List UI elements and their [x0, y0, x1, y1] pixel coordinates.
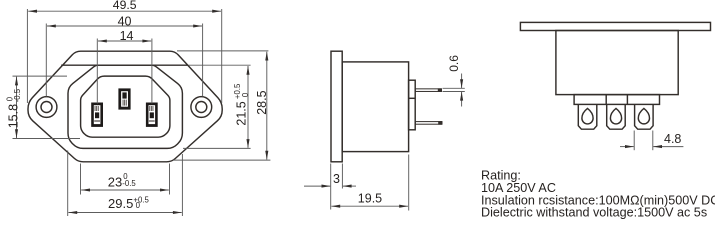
- mounting hole left (outer): [36, 97, 57, 118]
- lower pin (side): [415, 121, 442, 125]
- svg-text:21.5: 21.5: [234, 101, 248, 125]
- terminal block divider: [409, 97, 416, 99]
- dim 15.8 0/-0.5 (left, rotated): [5, 76, 80, 138]
- base band divider 1: [605, 95, 607, 105]
- dim 21.5 +0.5/0 (right, rotated): [183, 65, 251, 148]
- svg-text:-0.5: -0.5: [122, 179, 136, 188]
- terminal pin 2: [607, 104, 626, 129]
- flange bar: [520, 22, 710, 30]
- dim 49.5: [27, 0, 221, 103]
- flange internal step line: [61, 64, 188, 66]
- body (rear housing): [556, 31, 678, 95]
- svg-text:-0.5: -0.5: [13, 88, 22, 102]
- terminal pin 3: [635, 104, 654, 129]
- boss outline: [68, 65, 182, 148]
- dim 3: [304, 164, 356, 210]
- side flange plate: [331, 51, 342, 162]
- flange outline: [28, 51, 222, 162]
- svg-text:0: 0: [241, 92, 250, 97]
- dim 19.5: [331, 155, 409, 211]
- pin E (centre): [118, 88, 130, 109]
- terminal base band: [574, 95, 659, 105]
- svg-text:29.5: 29.5: [108, 196, 133, 211]
- svg-text:0: 0: [136, 201, 141, 210]
- pin N (right): [146, 103, 158, 127]
- terminal block: [409, 80, 416, 130]
- svg-text:28.5: 28.5: [255, 90, 269, 114]
- svg-text:0.6: 0.6: [447, 55, 461, 72]
- svg-text:4.8: 4.8: [664, 132, 681, 146]
- svg-text:15.8: 15.8: [7, 104, 21, 128]
- svg-text:19.5: 19.5: [358, 191, 382, 205]
- teardrop hole 2: [610, 108, 621, 124]
- dim 23 0/-0.5: [81, 164, 170, 195]
- teardrop hole 3: [638, 108, 649, 124]
- dim 0.6 (rotated): [443, 55, 465, 107]
- dim 14: [97, 29, 152, 103]
- mounting hole right (outer): [191, 97, 212, 118]
- svg-text:Dielectric withstand voltage:1: Dielectric withstand voltage:1500V ac 5s: [481, 206, 707, 220]
- dim 28.5 (far right, rotated): [173, 51, 270, 160]
- rating text block: [481, 169, 715, 220]
- svg-text:14: 14: [120, 29, 134, 43]
- pin L (left): [91, 103, 103, 127]
- svg-text:49.5: 49.5: [113, 0, 137, 12]
- upper pin (side): [415, 88, 441, 92]
- terminal pin 1: [578, 104, 597, 129]
- recess outline: [81, 76, 170, 137]
- mounting hole right (inner): [196, 102, 207, 113]
- mounting hole left (inner): [41, 102, 52, 113]
- svg-text:40: 40: [118, 14, 132, 28]
- svg-text:3: 3: [333, 172, 340, 186]
- dim 29.5 +0.5/0: [68, 151, 183, 217]
- side body: [342, 62, 408, 152]
- svg-text:23: 23: [108, 174, 122, 189]
- dim 40: [46, 14, 202, 96]
- teardrop hole 1: [582, 108, 593, 124]
- dim 4.8: [620, 131, 683, 151]
- base band divider 2: [626, 95, 628, 105]
